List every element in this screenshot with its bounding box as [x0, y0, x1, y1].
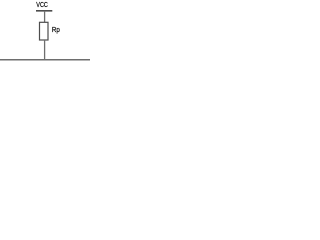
power rail VCC bar [36, 10, 52, 12]
resistor Rp body [40, 22, 49, 40]
wire horizontal bus [0, 59, 90, 61]
wire resistor bottom to bus [44, 40, 46, 60]
svg-text:Rp: Rp [52, 25, 60, 34]
wire VCC bar to resistor top [44, 11, 46, 22]
svg-text:VCC: VCC [36, 2, 48, 9]
